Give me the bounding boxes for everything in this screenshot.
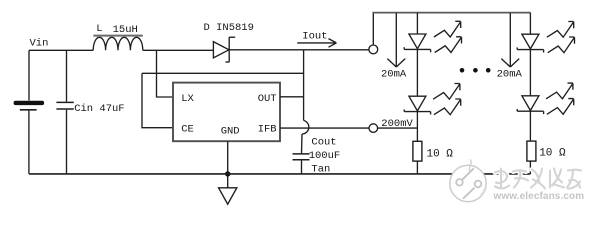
svg-text:Iout: Iout xyxy=(302,31,327,43)
svg-text:LX: LX xyxy=(181,93,194,105)
LED D4 string2 top xyxy=(517,34,543,52)
wire Cin bottom to rail xyxy=(66,110,68,174)
junction dot GND-rail xyxy=(225,171,230,176)
battery BT1 xyxy=(14,101,44,110)
wire Cout bottom to rail xyxy=(301,161,303,174)
wire bottom rail xyxy=(29,173,530,175)
wire resistor1 to rail xyxy=(416,161,418,174)
wire circle top to top rail xyxy=(372,13,374,45)
svg-text:OUT: OUT xyxy=(258,93,277,105)
svg-text:20mA: 20mA xyxy=(497,69,523,81)
wire OUT pin to output vertical xyxy=(280,96,304,98)
wire hop bottom to Cout xyxy=(301,134,304,153)
inductor L 15uH xyxy=(93,36,143,51)
svg-text:IFB: IFB xyxy=(258,123,277,135)
wire Cin branch top xyxy=(66,50,68,101)
IC U1 box xyxy=(173,83,280,142)
wire LED1-LED2 string1 xyxy=(416,49,418,96)
wire inductor to diode anode xyxy=(143,49,214,51)
wire resistor2 to rail xyxy=(529,161,531,174)
svg-text:Vin: Vin xyxy=(30,38,49,50)
svg-text:10 Ω: 10 Ω xyxy=(427,148,454,160)
wire LED1-LED2 string2 xyxy=(529,50,531,96)
capacitor Cin xyxy=(56,102,73,109)
light arrows LED D3 xyxy=(433,84,460,100)
wire CE net vertical and to CE pin xyxy=(142,73,173,127)
capacitor Cout xyxy=(293,154,310,160)
svg-text:L: L xyxy=(96,23,102,35)
light arrows LED D4 xyxy=(547,22,574,38)
wire 200mV node to LED string 1 xyxy=(378,127,418,129)
light arrows LED D5 xyxy=(546,83,573,99)
ground symbol xyxy=(219,188,237,204)
watermark logo elecfans xyxy=(450,160,486,202)
diode D1 (schottky) xyxy=(213,37,235,62)
annotation current arrow 1 xyxy=(387,13,405,67)
annotation current arrow 2 xyxy=(501,13,519,67)
wire left rail upper (Vin down to battery) xyxy=(28,50,30,100)
wire CE net horizontal to output node xyxy=(142,72,304,74)
svg-text:D IN5819: D IN5819 xyxy=(204,22,254,34)
wire LX branch xyxy=(157,50,174,97)
svg-text:15uH: 15uH xyxy=(113,24,138,36)
wire output vertical (diode node down to OUT pin and hop) xyxy=(303,50,305,120)
annotation arrow Iout xyxy=(297,39,336,48)
svg-text:Cout: Cout xyxy=(311,137,336,149)
svg-text:10 Ω: 10 Ω xyxy=(539,148,566,160)
svg-text:www.elecfans.com: www.elecfans.com xyxy=(493,191,585,202)
wire top rail xyxy=(372,12,530,14)
node Iout circle xyxy=(369,45,378,54)
svg-text:Cin 47uF: Cin 47uF xyxy=(74,103,124,115)
light arrows LED D2 xyxy=(434,21,461,37)
wire top main from Vin corner to inductor xyxy=(29,49,93,51)
LED D2 string1 top xyxy=(404,34,430,52)
svg-text:100uF: 100uF xyxy=(309,150,341,162)
wire LED2 to resistor string1 xyxy=(416,112,418,142)
LED D3 string1 bottom xyxy=(404,96,430,114)
svg-text:GND: GND xyxy=(221,126,240,138)
LED string 1 top wire xyxy=(416,13,418,34)
wire LED2 to resistor string2 xyxy=(529,111,531,141)
LED string 2 top wire xyxy=(529,13,531,35)
watermark text 电子发烧友 (approximated glyph strokes) xyxy=(495,169,581,189)
wire IFB pin to 200mV node xyxy=(280,127,369,129)
svg-text:20mA: 20mA xyxy=(381,69,407,81)
dots (more strings) xyxy=(460,68,491,73)
wire GND pin down through rail xyxy=(227,141,229,187)
resistor R2 xyxy=(527,141,536,161)
wire diode cathode to Iout node circle xyxy=(229,49,369,51)
wire battery bottom to rail xyxy=(28,111,30,174)
resistor R1 xyxy=(413,141,422,161)
svg-text:CE: CE xyxy=(181,123,194,135)
LED D5 string2 bottom xyxy=(517,96,543,114)
wire hop over IFB line xyxy=(302,120,309,134)
node 200mV circle xyxy=(369,124,378,133)
